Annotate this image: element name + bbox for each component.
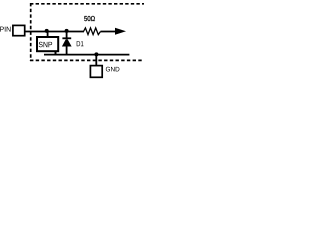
component SNP (box) <box>57 36 59 52</box>
chip boundary (dashed) top edge <box>30 3 146 5</box>
background <box>0 0 144 79</box>
label PIN <box>0 27 10 32</box>
label GND <box>106 67 120 72</box>
diode D1 cathode bar <box>62 37 71 39</box>
resistor R (50 ohm) zigzag <box>84 28 101 35</box>
arrow to chip internals <box>115 28 126 35</box>
diode D1 triangle <box>62 39 72 46</box>
label SNP <box>39 42 52 48</box>
wire: bottom rail <box>44 54 129 56</box>
wire: diode bottom lead <box>66 46 68 56</box>
pad GND (terminal box) <box>90 66 102 78</box>
chip boundary (dashed) bottom edge <box>30 59 144 61</box>
wire: GND stub <box>95 55 97 66</box>
junction dot at GND tap <box>94 52 98 56</box>
junction dot at diode tap <box>65 29 69 33</box>
label 50Ω (resistor value) <box>84 16 95 21</box>
pad PIN (terminal box) <box>13 25 25 35</box>
junction dot at SNP tap <box>45 29 49 33</box>
wire: stub down to SNP <box>47 31 49 37</box>
wire: diode top lead <box>66 31 68 38</box>
wire: PIN pad to resistor (top rail) <box>26 31 85 33</box>
chip boundary (dashed) left edge <box>30 3 32 61</box>
wire: SNP bottom stub <box>55 52 57 55</box>
wire: resistor to arrow <box>101 31 118 33</box>
label D1 <box>77 41 84 46</box>
